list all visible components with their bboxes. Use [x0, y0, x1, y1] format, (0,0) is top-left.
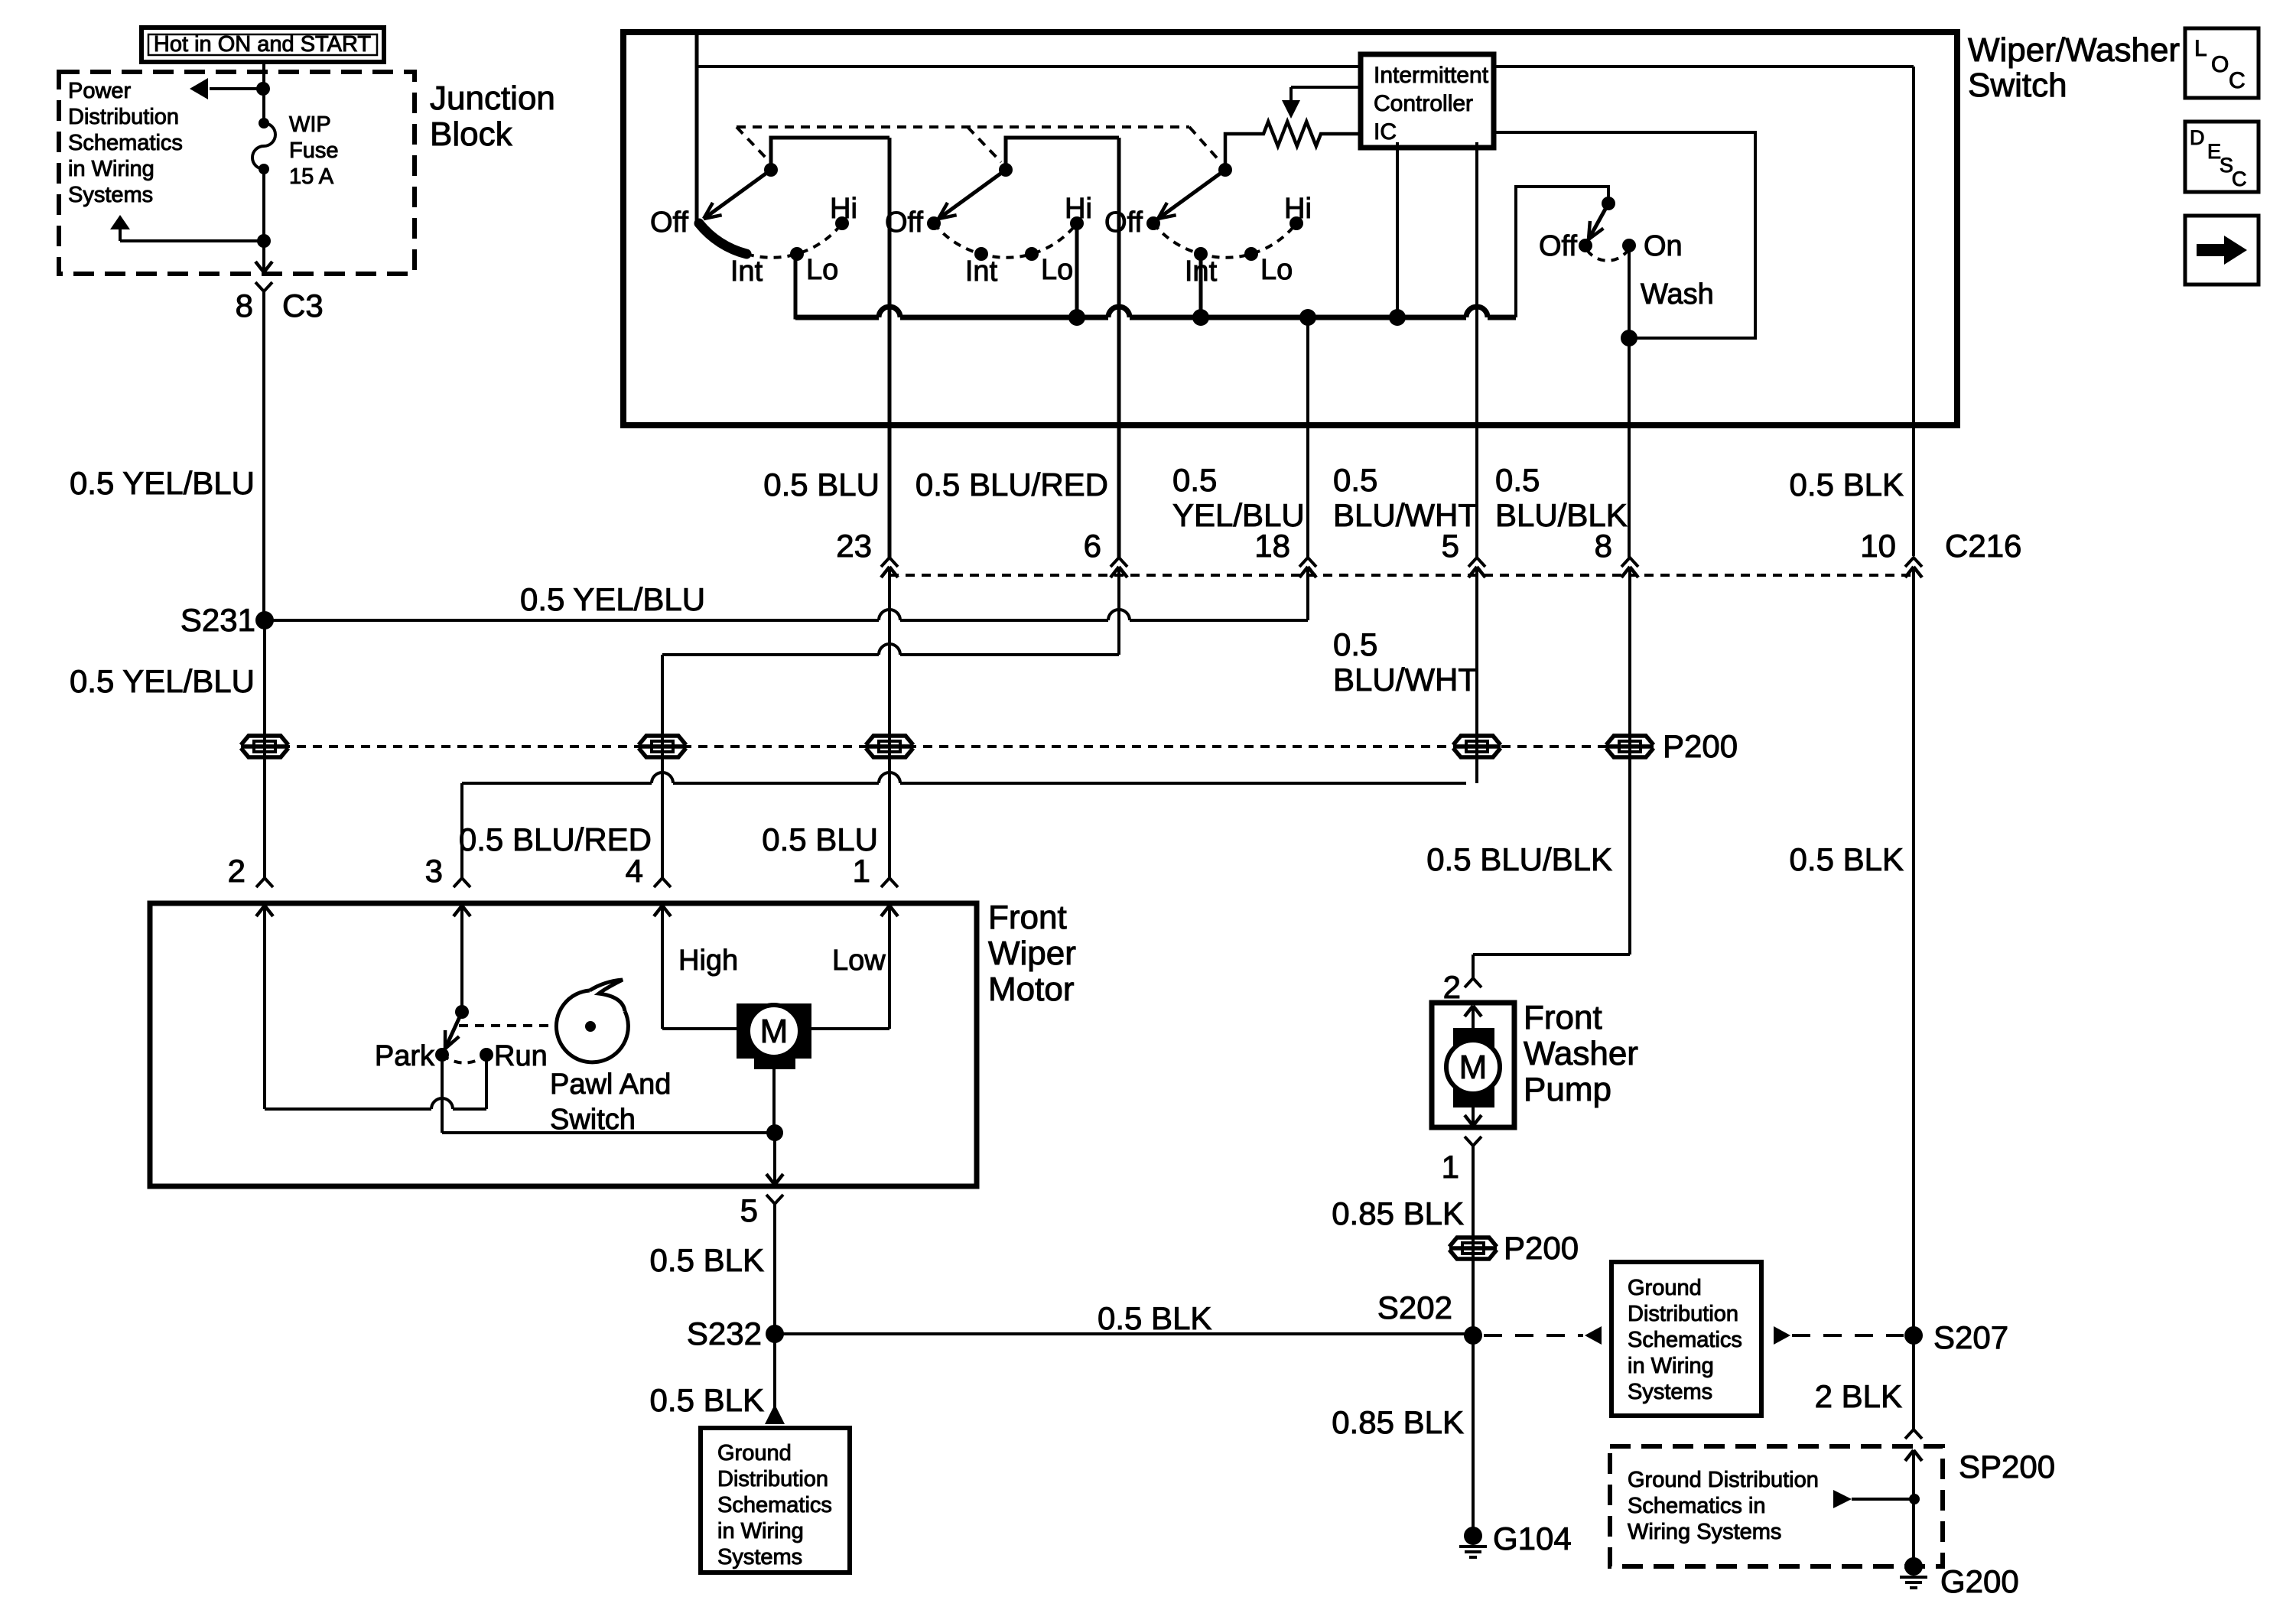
svg-text:1: 1 [853, 853, 870, 889]
svg-text:Schematics in: Schematics in [1628, 1494, 1766, 1518]
svg-text:Ground Distribution: Ground Distribution [1628, 1468, 1819, 1492]
svg-text:SP200: SP200 [1959, 1449, 2055, 1485]
svg-text:0.5 BLK: 0.5 BLK [1790, 841, 1904, 877]
svg-text:10: 10 [1860, 528, 1896, 564]
svg-text:Schematics: Schematics [1628, 1328, 1742, 1352]
svg-text:P200: P200 [1663, 728, 1738, 764]
svg-text:L: L [2194, 36, 2207, 61]
svg-text:4: 4 [626, 853, 643, 889]
svg-text:C: C [2229, 68, 2246, 93]
svg-text:8: 8 [236, 288, 253, 324]
svg-text:Pump: Pump [1524, 1071, 1611, 1108]
svg-text:0.85 BLK: 0.85 BLK [1332, 1195, 1464, 1231]
svg-text:0.85 BLK: 0.85 BLK [1332, 1404, 1464, 1440]
svg-text:Systems: Systems [717, 1545, 802, 1569]
svg-text:Intermittent: Intermittent [1374, 63, 1489, 88]
svg-text:Hot in ON and START: Hot in ON and START [154, 32, 371, 57]
svg-text:2 BLK: 2 BLK [1815, 1378, 1902, 1414]
svg-text:S231: S231 [180, 602, 255, 638]
svg-text:Off: Off [650, 207, 688, 239]
svg-text:0.5 BLK: 0.5 BLK [650, 1382, 764, 1418]
svg-text:S207: S207 [1933, 1319, 2008, 1355]
svg-text:M: M [1459, 1049, 1488, 1086]
svg-text:IC: IC [1374, 119, 1397, 145]
svg-text:Distribution: Distribution [1628, 1302, 1738, 1326]
svg-text:Power: Power [68, 79, 132, 103]
svg-text:Fuse: Fuse [289, 138, 338, 163]
svg-text:0.5: 0.5 [1495, 462, 1540, 498]
svg-text:Distribution: Distribution [717, 1467, 828, 1491]
svg-text:BLU/WHT: BLU/WHT [1333, 662, 1478, 698]
svg-text:D: D [2190, 126, 2205, 149]
svg-text:Pawl And: Pawl And [550, 1068, 671, 1101]
svg-text:0.5: 0.5 [1172, 462, 1217, 498]
svg-text:Off: Off [1539, 230, 1577, 262]
svg-text:15 A: 15 A [289, 164, 334, 189]
svg-text:0.5 BLU: 0.5 BLU [762, 821, 878, 857]
svg-text:Run: Run [494, 1040, 548, 1072]
svg-text:Junction: Junction [430, 80, 555, 117]
svg-text:in Wiring: in Wiring [68, 157, 154, 181]
svg-text:18: 18 [1254, 528, 1290, 564]
svg-text:Off: Off [1104, 207, 1143, 239]
svg-text:1: 1 [1442, 1149, 1459, 1185]
svg-text:O: O [2211, 52, 2229, 77]
svg-text:BLU/WHT: BLU/WHT [1333, 497, 1478, 533]
svg-text:Schematics: Schematics [68, 131, 183, 155]
svg-text:Motor: Motor [988, 971, 1074, 1008]
svg-text:BLU/BLK: BLU/BLK [1495, 497, 1628, 533]
svg-text:Switch: Switch [550, 1104, 636, 1136]
svg-text:C3: C3 [282, 288, 324, 324]
svg-text:Washer: Washer [1524, 1035, 1638, 1072]
svg-text:G104: G104 [1493, 1521, 1572, 1556]
svg-text:Hi: Hi [830, 193, 857, 225]
svg-text:P200: P200 [1504, 1230, 1579, 1266]
svg-text:Distribution: Distribution [68, 105, 179, 129]
svg-text:Front: Front [1524, 999, 1602, 1036]
svg-text:0.5 BLU: 0.5 BLU [763, 467, 880, 503]
svg-text:Wiper/Washer: Wiper/Washer [1968, 31, 2180, 69]
svg-text:Schematics: Schematics [717, 1493, 832, 1517]
svg-text:Int: Int [965, 255, 998, 288]
svg-text:Switch: Switch [1968, 67, 2067, 104]
svg-text:S202: S202 [1377, 1290, 1452, 1325]
svg-text:0.5: 0.5 [1333, 462, 1377, 498]
svg-text:23: 23 [836, 528, 872, 564]
svg-text:Systems: Systems [1628, 1380, 1712, 1404]
svg-text:On: On [1644, 230, 1683, 262]
svg-text:Systems: Systems [68, 183, 153, 207]
svg-text:0.5 BLU/RED: 0.5 BLU/RED [459, 821, 652, 857]
svg-text:C216: C216 [1945, 528, 2021, 564]
svg-text:S232: S232 [687, 1316, 762, 1351]
svg-text:0.5 BLK: 0.5 BLK [650, 1242, 764, 1278]
svg-text:in Wiring: in Wiring [717, 1519, 804, 1543]
svg-text:5: 5 [1442, 528, 1459, 564]
svg-text:High: High [678, 945, 738, 977]
svg-text:0.5 YEL/BLU: 0.5 YEL/BLU [70, 663, 255, 699]
svg-text:2: 2 [1443, 969, 1461, 1005]
svg-text:0.5: 0.5 [1333, 626, 1377, 662]
svg-text:YEL/BLU: YEL/BLU [1172, 497, 1305, 533]
svg-text:in Wiring: in Wiring [1628, 1354, 1714, 1378]
svg-text:6: 6 [1084, 528, 1101, 564]
svg-text:Park: Park [375, 1040, 435, 1072]
svg-text:2: 2 [228, 853, 246, 889]
svg-text:WIP: WIP [289, 112, 331, 137]
svg-text:Hi: Hi [1284, 193, 1312, 225]
svg-text:G200: G200 [1940, 1563, 2019, 1599]
svg-text:Hi: Hi [1065, 193, 1092, 225]
svg-text:0.5 YEL/BLU: 0.5 YEL/BLU [520, 581, 705, 617]
svg-text:Block: Block [430, 115, 513, 153]
svg-text:Wash: Wash [1641, 278, 1714, 311]
svg-text:Int: Int [730, 255, 763, 288]
svg-text:Lo: Lo [1260, 254, 1293, 286]
svg-text:0.5 BLU/BLK: 0.5 BLU/BLK [1426, 841, 1612, 877]
svg-text:0.5 BLU/RED: 0.5 BLU/RED [915, 467, 1108, 503]
svg-text:Front: Front [988, 899, 1067, 936]
svg-text:8: 8 [1595, 528, 1612, 564]
svg-text:Wiring Systems: Wiring Systems [1628, 1520, 1781, 1544]
svg-text:0.5 YEL/BLU: 0.5 YEL/BLU [70, 465, 255, 501]
svg-text:Low: Low [832, 945, 886, 977]
svg-text:Ground: Ground [1628, 1276, 1702, 1300]
svg-text:Lo: Lo [1041, 254, 1073, 286]
svg-text:M: M [760, 1013, 789, 1050]
svg-text:Ground: Ground [717, 1441, 792, 1465]
svg-text:0.5 BLK: 0.5 BLK [1098, 1300, 1211, 1336]
svg-text:Wiper: Wiper [988, 935, 1076, 972]
svg-text:Lo: Lo [806, 254, 838, 286]
svg-text:0.5 BLK: 0.5 BLK [1790, 467, 1904, 503]
svg-text:5: 5 [740, 1192, 758, 1228]
svg-text:3: 3 [425, 853, 443, 889]
svg-text:Controller: Controller [1374, 91, 1473, 116]
svg-text:C: C [2232, 168, 2247, 190]
